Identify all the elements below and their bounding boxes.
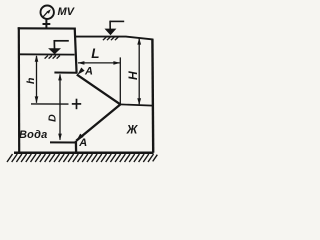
right reservoir right wall: [151, 39, 154, 153]
ground line: [14, 152, 154, 155]
right level symbol flag: [110, 21, 124, 29]
inclined wall lower diagonal: [76, 104, 120, 140]
plus mark lid center: [72, 99, 81, 110]
dimension D line: [59, 74, 61, 139]
right level hatch ticks: [103, 37, 118, 40]
left water level hatch ticks: [45, 56, 60, 59]
dimension L line: [78, 62, 120, 64]
dimension H line: [138, 39, 140, 105]
svg-text:Ж: Ж: [126, 124, 139, 136]
svg-text:D: D: [47, 114, 59, 122]
left water level symbol flag: [54, 40, 69, 49]
dimension H bottom arrow: [137, 98, 141, 105]
dimension D top arrow: [58, 74, 62, 81]
lower wall vertical foot: [75, 141, 77, 153]
dimension L right arrow: [113, 61, 120, 65]
gauge needle: [43, 9, 51, 17]
bottom ledge: [50, 141, 77, 143]
lid centerline: [31, 103, 69, 105]
section arrow A top: [77, 68, 84, 75]
tank left wall: [18, 27, 21, 152]
tank top edge: [18, 27, 76, 29]
ground hatching: [7, 154, 157, 162]
pressure gauge MV circle: [41, 6, 54, 19]
gauge stem: [45, 19, 47, 28]
svg-text:МV: МV: [58, 6, 76, 18]
svg-text:Вода: Вода: [19, 129, 47, 141]
dimension h bottom arrow: [35, 96, 39, 103]
svg-text:h: h: [25, 78, 37, 84]
right level symbol triangle: [105, 29, 117, 36]
right reservoir surface line: [76, 37, 153, 40]
dimension D bottom arrow: [58, 134, 62, 141]
dimension H top arrow: [137, 38, 141, 45]
left water level symbol triangle: [48, 48, 61, 54]
dimension h line: [36, 56, 38, 103]
section arrow A bottom: [76, 134, 83, 141]
tank bottom ledge: [54, 72, 77, 74]
svg-text:A: A: [78, 137, 87, 149]
vertex extension line: [119, 57, 121, 103]
svg-text:L: L: [91, 46, 99, 61]
dimension L left arrow: [78, 61, 85, 65]
svg-text:A: A: [84, 66, 93, 78]
svg-text:H: H: [126, 71, 140, 80]
water surface line: [20, 53, 75, 55]
tank right wall: [75, 28, 77, 74]
inclined wall upper diagonal: [77, 75, 121, 105]
vertex horizontal line: [120, 104, 153, 105]
dimension h top arrow: [35, 55, 39, 62]
gauge fitting nub: [43, 23, 51, 25]
